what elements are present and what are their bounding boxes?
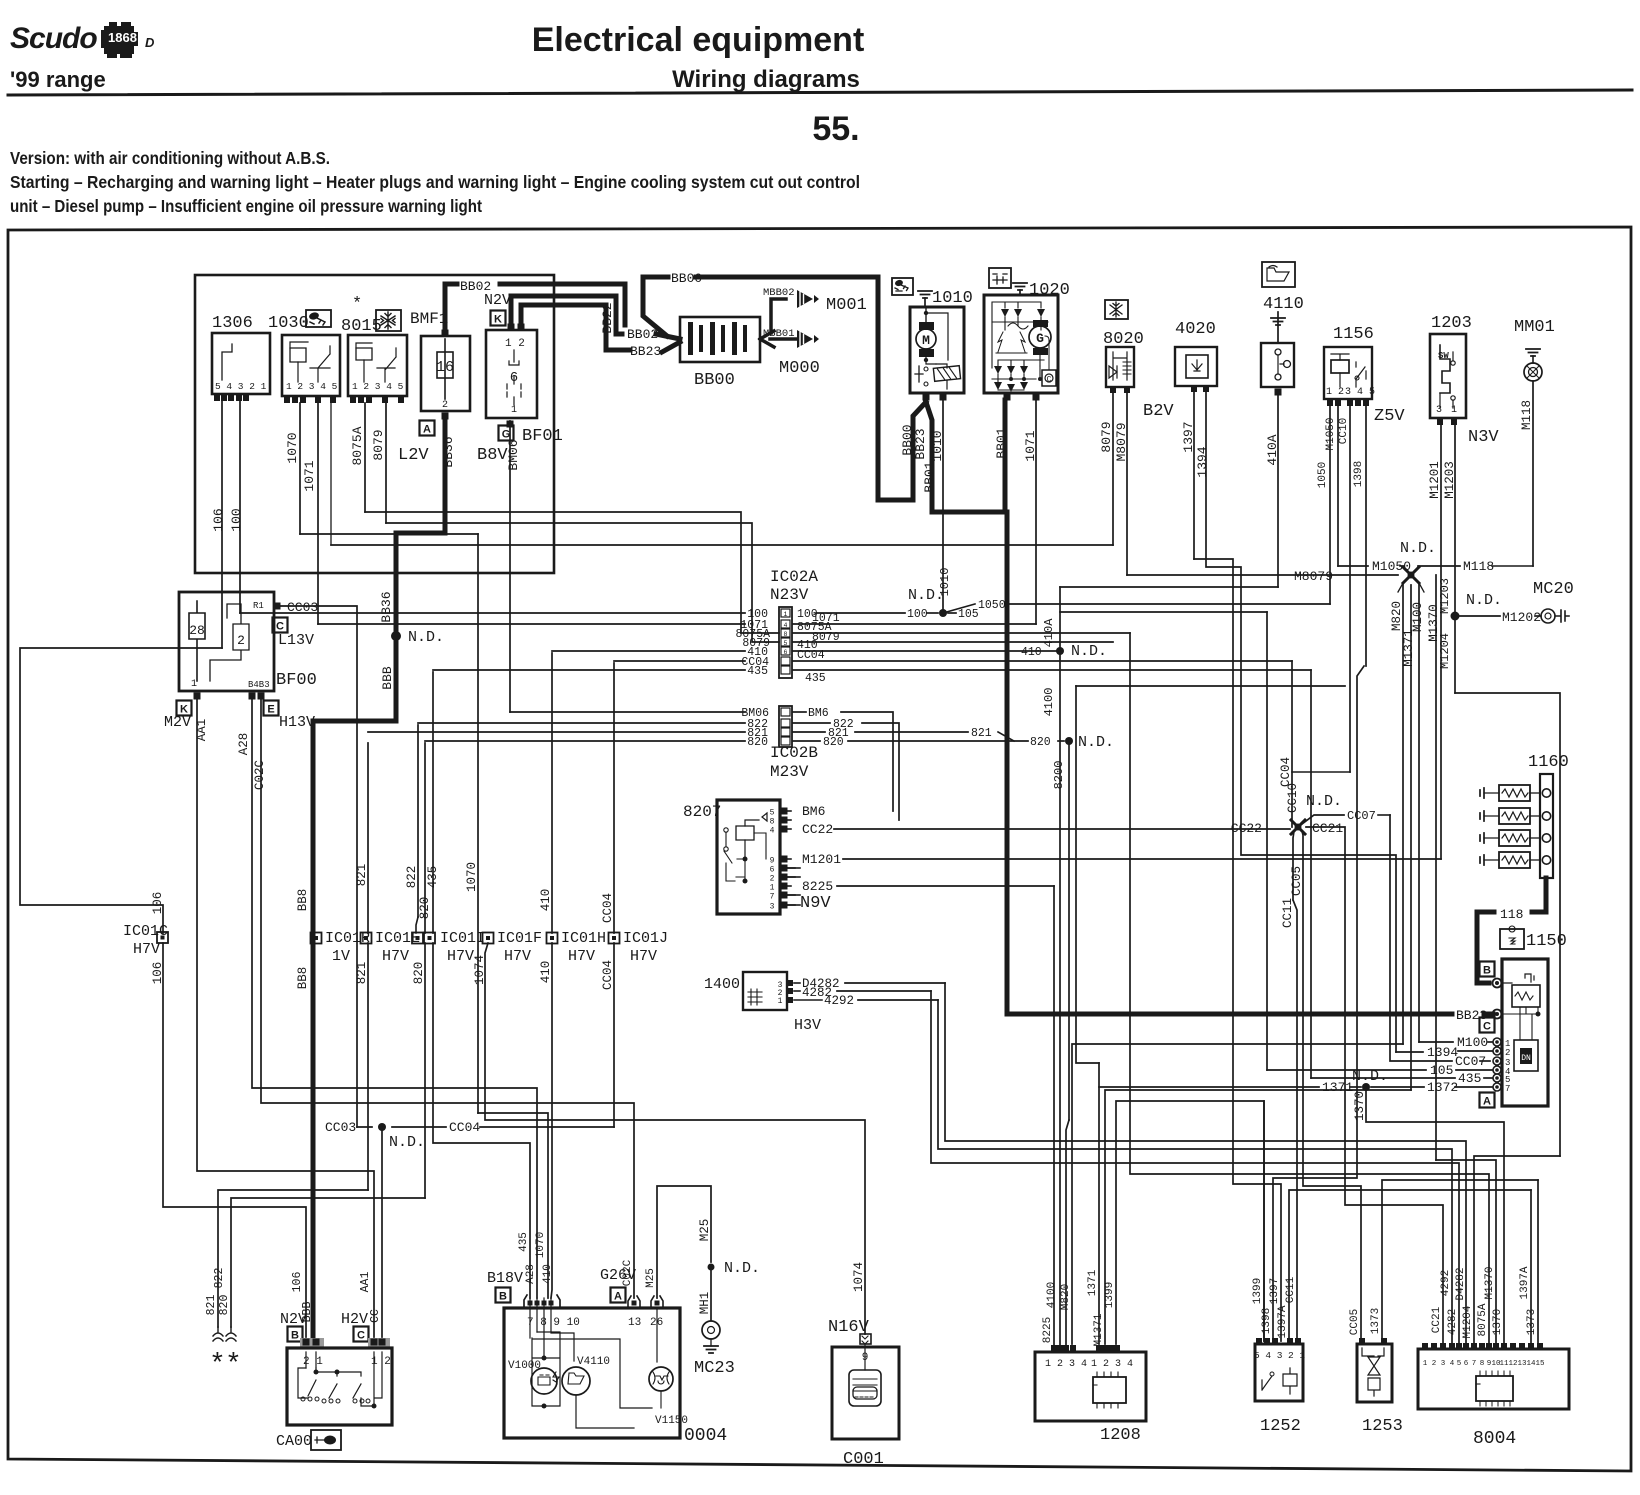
wire 8075A seg [364,403,366,512]
wire 106 left loop [20,648,222,933]
wire 4292 route [938,1000,1452,1344]
svg-text:D: D [145,35,155,50]
wire 1397 route [1194,559,1281,1341]
svg-text:5 4 3: 5 4 3 [1254,1350,1283,1361]
wire 8079 from 8020 [1112,393,1114,545]
svg-text:MM01: MM01 [1514,318,1555,337]
svg-text:CC11: CC11 [1281,898,1295,928]
svg-text:1 2: 1 2 [505,338,525,350]
solenoid valve 1253 [1357,1344,1392,1402]
svg-text:1020: 1020 [1029,281,1070,300]
svg-text:M001: M001 [826,296,867,315]
connector IC01E [361,933,372,944]
svg-text:4020: 4020 [1175,320,1216,339]
svg-text:IC02B: IC02B [770,744,818,762]
svg-text:N.D.: N.D. [389,1134,425,1151]
bus BM06 [510,711,745,713]
comb pins G26V [628,1296,640,1308]
wire M8079 from 8020 [1126,393,1128,575]
svg-text:1398: 1398 [1261,1308,1273,1334]
wire CC05 [1302,831,1361,1341]
svg-text:C: C [1047,376,1052,385]
svg-text:1253: 1253 [1362,1417,1403,1436]
thick wire BB23 right trunk to 1150 [1007,512,1452,1014]
wire 100 from 1306 [239,401,241,613]
svg-text:Electrical equipment: Electrical equipment [532,21,865,59]
bus 435 [433,669,745,671]
wire CC11 [1293,831,1297,1341]
svg-text:M2V: M2V [164,714,191,731]
bus 100 [240,612,745,614]
wire 822 [417,725,419,917]
svg-text:1: 1 [1451,405,1457,416]
wire 1071 from 1020 [1035,400,1037,624]
svg-text:H13V: H13V [279,714,315,731]
CA00 internal switches [306,1352,316,1368]
svg-text:1V: 1V [332,948,350,965]
svg-text:M820: M820 [1060,1284,1072,1310]
svg-text:8225: 8225 [1042,1317,1054,1343]
svg-text:CC04: CC04 [449,1120,480,1135]
svg-text:435: 435 [805,672,826,685]
svg-text:1399: 1399 [1252,1278,1264,1304]
svg-text:CC22: CC22 [802,822,833,837]
M1204 route [1474,1156,1560,1344]
connector label A / L2V [420,421,435,436]
wire M1050 seg [1337,406,1339,566]
wire 1050 horiz [1006,603,1330,605]
svg-text:CC10: CC10 [1286,783,1300,813]
svg-text:1030: 1030 [268,314,309,333]
svg-text:G26V: G26V [600,1267,636,1284]
svg-text:C: C [276,621,284,633]
svg-text:435: 435 [518,1232,530,1252]
svg-text:1071: 1071 [1023,430,1038,461]
svg-text:8200: 8200 [1052,761,1066,790]
svg-text:N.D.: N.D. [408,629,444,646]
wire D4282 wire [845,982,945,984]
svg-text:M100: M100 [1411,602,1425,632]
svg-text:1: 1 [770,884,775,893]
wire 410A seg [1277,395,1279,587]
svg-text:1371: 1371 [1087,1269,1099,1296]
bus 410 [552,650,745,652]
svg-text:Wiring diagrams: Wiring diagrams [672,66,860,93]
svg-text:A: A [614,1291,622,1303]
svg-text:820: 820 [418,897,432,920]
svg-text:M1371: M1371 [1093,1313,1105,1346]
svg-text:1070: 1070 [465,862,479,892]
wire 8225 horiz [837,885,1054,887]
svg-text:410: 410 [1021,646,1042,659]
svg-text:M25: M25 [645,1268,657,1288]
wire M8079 horiz [1127,574,1398,576]
svg-text:N.D.: N.D. [1071,643,1107,660]
svg-text:CC04: CC04 [1279,757,1293,787]
svg-text:1373: 1373 [1526,1309,1538,1335]
svg-text:8004: 8004 [1473,1429,1516,1449]
svg-text:Starting – Recharging and warn: Starting – Recharging and warning light … [10,172,860,192]
svg-text:L2V: L2V [398,446,429,465]
wire CC21 to 8004 [1306,827,1443,1344]
svg-text:820: 820 [1030,736,1051,749]
svg-text:8: 8 [1480,1360,1485,1368]
wire 8079 seg [385,403,387,523]
svg-text:4292: 4292 [1440,1270,1452,1296]
svg-text:1070: 1070 [535,1232,547,1258]
icon key 1010 [892,278,913,295]
svg-text:A: A [423,424,431,436]
wire 820 [424,743,426,933]
M1204 wire [1454,616,1456,693]
svg-text:G: G [1036,331,1044,346]
svg-text:1371: 1371 [1322,1080,1353,1095]
svg-text:BB23: BB23 [630,344,661,359]
svg-text:1868: 1868 [108,30,137,45]
svg-text:N.D.: N.D. [724,1260,760,1277]
svg-text:M100: M100 [1457,1035,1488,1050]
svg-text:M118: M118 [1520,400,1534,430]
svg-text:6: 6 [770,866,775,875]
svg-text:A28: A28 [525,1264,537,1284]
svg-text:4: 4 [770,827,775,836]
svg-text:M820: M820 [1390,601,1404,631]
svg-text:M1050: M1050 [1372,559,1411,574]
svg-text:100: 100 [229,508,244,531]
wire CC down [381,1127,383,1337]
svg-text:BB23: BB23 [913,428,928,459]
svg-text:M1204: M1204 [1438,633,1452,669]
svg-text:R1: R1 [253,601,264,611]
svg-text:CA00: CA00 [276,1433,312,1450]
svg-text:BB01: BB01 [922,461,937,492]
svg-text:1400: 1400 [704,976,740,993]
svg-text:N23V: N23V [770,586,809,604]
svg-text:B8V: B8V [477,446,508,465]
MC20 condenser [1451,612,1460,621]
svg-text:3 4 5: 3 4 5 [1345,387,1375,398]
svg-text:1: 1 [511,405,517,416]
svg-text:M25: M25 [698,1219,712,1242]
bus 820 [425,740,745,742]
wire 435 [432,672,434,933]
thick wire BB22 from BF01 pin1 [511,296,622,334]
wire 8200 down [1068,741,1070,1120]
glow plug at y=816 [1542,812,1550,820]
icon key 1030 [306,310,331,327]
svg-text:H7V: H7V [447,948,474,965]
svg-text:822: 822 [213,1268,226,1289]
svg-text:1 2 3 4: 1 2 3 4 [1045,1359,1087,1370]
svg-text:H7V: H7V [630,948,657,965]
svg-text:CC07: CC07 [1347,809,1376,823]
wire M820 down [1402,583,1404,1044]
wire 1070 seg [299,403,301,534]
wire 1397A route [1289,1190,1531,1341]
CC03 junction line [357,1126,372,1128]
svg-text:1010: 1010 [930,430,945,461]
glow plug at y=860 [1542,856,1550,864]
svg-text:0004: 0004 [684,1426,727,1446]
svg-text:B4B3: B4B3 [248,680,270,690]
svg-text:M1201: M1201 [1428,461,1442,499]
connector BB00 [680,317,760,362]
svg-text:1306: 1306 [212,314,253,333]
wire 410A jog [1060,586,1278,588]
svg-text:821: 821 [355,962,369,985]
icon snowflake 8020 [1105,300,1128,319]
svg-text:410: 410 [542,1264,554,1284]
svg-text:8075A: 8075A [1477,1303,1489,1336]
connector label G / BF01 / B8V [499,426,514,441]
glow plug at y=838 [1542,834,1550,842]
bus CC04 [614,660,745,662]
header rule [8,90,1632,95]
svg-text:H7V: H7V [382,948,409,965]
wire 821 [367,743,369,933]
svg-text:Z5V: Z5V [1374,407,1405,426]
thick wire 118 [1532,878,1546,912]
svg-text:M1201: M1201 [802,852,841,867]
svg-text:N2V: N2V [484,292,511,309]
icon battery 1020 [989,268,1011,288]
svg-text:1397A: 1397A [1277,1305,1289,1338]
svg-text:M1371: M1371 [1402,629,1416,667]
unit 1150 box [1480,962,1495,977]
svg-text:1373: 1373 [1370,1308,1382,1334]
thick wire BB00 top [643,275,668,280]
svg-text:1398: 1398 [1353,461,1365,487]
svg-text:N.D.: N.D. [908,587,944,604]
svg-text:N3V: N3V [1468,428,1499,447]
svg-text:7 8 9 10: 7 8 9 10 [527,1317,580,1329]
wire 1074 [485,943,865,1334]
svg-text:12: 12 [1508,1360,1517,1368]
svg-text:1208: 1208 [1100,1426,1141,1445]
svg-text:821: 821 [971,727,992,740]
svg-text:B: B [291,1330,299,1342]
svg-text:106: 106 [151,892,165,915]
svg-text:BB02: BB02 [460,279,491,294]
svg-text:8: 8 [784,631,788,638]
M25 / MC23 [657,1186,711,1298]
svg-text:7: 7 [1505,1084,1510,1094]
svg-text:2: 2 [1432,1360,1437,1368]
svg-text:H7V: H7V [133,941,160,958]
svg-text:1370: 1370 [1353,1091,1367,1121]
svg-text:V4110: V4110 [577,1356,610,1368]
svg-text:BF00: BF00 [276,671,317,690]
svg-text:M8079: M8079 [1114,422,1129,461]
glow unit 1150 icon [1500,929,1524,949]
svg-text:N.D.: N.D. [1400,540,1436,557]
svg-text:E: E [267,704,274,716]
1150 pins 1-7 [1493,1038,1501,1046]
svg-text:105: 105 [958,608,979,621]
thick wire BB02 from BMF1 to BB00 [445,284,457,331]
relay unit 1208 [1035,1352,1146,1421]
arrows M001 / M000 [760,331,796,347]
wire 1070 [477,534,479,1113]
wire 1398 seg [1365,406,1367,666]
svg-text:1150: 1150 [1526,932,1567,951]
svg-text:MBB02: MBB02 [763,287,795,299]
svg-text:BM6: BM6 [802,804,825,819]
svg-text:BB00: BB00 [694,371,735,390]
svg-text:C: C [1483,1021,1491,1033]
svg-text:118: 118 [1500,907,1523,922]
wire M820 route [1072,1044,1403,1344]
wire 1050 diagonal [943,604,975,613]
wire M1201 seg [1440,425,1442,859]
svg-text:1 2: 1 2 [1326,387,1344,398]
wire CC03 [281,606,357,1127]
svg-text:2: 2 [442,400,448,411]
svg-text:B18V: B18V [487,1270,523,1287]
svg-text:AA1: AA1 [359,1272,372,1293]
svg-text:MC20: MC20 [1533,580,1574,599]
thick wire BB36 / BBB trunk [396,419,445,631]
svg-text:MH1: MH1 [698,1292,712,1315]
svg-text:H7V: H7V [568,948,595,965]
svg-text:6: 6 [510,370,518,386]
svg-text:5: 5 [784,640,788,647]
svg-text:N.D.: N.D. [1078,734,1114,751]
svg-text:M23V: M23V [770,763,809,781]
wire BM06 vertical [509,421,511,712]
svg-text:B: B [1483,965,1491,977]
svg-text:C: C [357,1330,365,1342]
svg-text:106: 106 [211,508,226,531]
svg-text:4100: 4100 [1046,1282,1058,1308]
svg-text:3: 3 [770,903,775,912]
svg-text:D4282: D4282 [1455,1267,1467,1300]
wire 1397 seg [1193,392,1195,559]
svg-text:55.: 55. [812,110,859,148]
wire 105 down [1266,612,1268,1070]
bus 1071 [318,623,745,625]
svg-text:1 2 3 4: 1 2 3 4 [1091,1359,1133,1370]
svg-text:G: G [502,429,511,441]
svg-text:822: 822 [405,866,419,889]
big loop wires right [1076,685,1345,687]
svg-text:9: 9 [770,857,775,866]
svg-text:'99 range: '99 range [10,67,106,92]
svg-text:CC21: CC21 [1431,1306,1443,1333]
svg-text:13: 13 [628,1317,641,1329]
svg-text:BBB: BBB [380,666,395,690]
svg-text:2 1: 2 1 [1288,1350,1305,1361]
wire D4282 route [945,983,1466,1344]
glow plug at y=793 [1542,789,1550,797]
svg-text:N.D.: N.D. [1466,592,1502,609]
svg-text:1394: 1394 [1427,1045,1458,1060]
wire 1394 route [1206,392,1396,1052]
svg-text:820: 820 [412,962,426,985]
svg-text:3: 3 [1441,1360,1446,1368]
svg-text:4100: 4100 [1042,688,1056,717]
svg-text:1399: 1399 [1104,1282,1116,1308]
connector IC01R [311,933,322,944]
svg-text:SW: SW [1438,351,1449,361]
svg-text:M1204: M1204 [1462,1305,1474,1338]
wire C02C [261,700,634,1298]
svg-text:M1370: M1370 [1484,1266,1496,1299]
svg-text:1071: 1071 [302,460,317,491]
svg-text:CC04: CC04 [601,960,615,990]
bus 821 [368,731,745,733]
wire 8225 down [1053,886,1055,1348]
svg-text:1252: 1252 [1260,1417,1301,1436]
svg-text:H3V: H3V [794,1017,821,1034]
wire CC07 to 1150 [1390,815,1452,1061]
svg-text:1074: 1074 [473,955,487,985]
svg-text:*: * [352,295,362,314]
wire M118 seg [1532,381,1534,566]
wire 1373 route [1382,1180,1538,1341]
wire CC04/CC10 down [1291,661,1293,827]
svg-text:100: 100 [907,608,928,621]
enclosure box top-left [195,275,554,573]
svg-text:A: A [1483,1096,1491,1108]
comb connector B18V [524,1295,560,1308]
wire AA1 [197,700,374,1337]
svg-text:435: 435 [1458,1071,1481,1086]
svg-text:MC23: MC23 [694,1359,735,1378]
svg-text:M8079: M8079 [1294,569,1333,584]
svg-text:6: 6 [784,649,788,656]
svg-text:A28: A28 [237,733,251,756]
svg-text:CC05: CC05 [1290,866,1304,896]
svg-text:CC: CC [369,1309,382,1323]
wire M1201 horiz [843,858,1441,860]
bulb V1150 [533,1339,652,1408]
svg-text:H7V: H7V [504,948,531,965]
svg-text:2: 2 [1505,1048,1510,1058]
svg-text:105: 105 [1430,1063,1453,1078]
svg-text:821: 821 [355,864,369,887]
svg-text:CC10: CC10 [1338,418,1350,444]
wire 1050 seg [1329,406,1331,604]
svg-text:unit – Diesel pump – Insuffici: unit – Diesel pump – Insufficient engine… [10,196,482,216]
svg-text:1: 1 [1423,1360,1428,1368]
thick wire BB23 down from starter [926,402,1004,512]
svg-text:1397: 1397 [1181,421,1196,452]
wire M1371 down [1410,585,1412,1090]
svg-text:435: 435 [747,665,768,678]
connector IC01J [609,933,620,944]
svg-text:Version: with air conditioning: Version: with air conditioning without A… [10,148,330,168]
wire 4292 wire [858,999,938,1001]
bus 8075A [365,512,779,633]
svg-text:7: 7 [1472,1360,1477,1368]
wire 106 from 1306 [221,401,223,648]
svg-text:1 2 3 4 5: 1 2 3 4 5 [352,381,404,392]
svg-text:1070: 1070 [285,432,300,463]
svg-text:M: M [922,333,930,348]
wire 4100 down [1059,651,1061,1348]
svg-text:DN: DN [1521,1054,1531,1063]
svg-text:4292: 4292 [824,994,854,1008]
fuse box BF00 [179,592,274,691]
icon oil can 4110 [1262,262,1295,287]
wire CC10 seg [1349,406,1351,772]
stacked feeder wires [300,533,478,535]
svg-text:4110: 4110 [1263,295,1304,314]
svg-text:CC04: CC04 [601,893,615,923]
svg-text:1397: 1397 [1269,1278,1281,1304]
svg-text:106: 106 [291,1272,304,1293]
